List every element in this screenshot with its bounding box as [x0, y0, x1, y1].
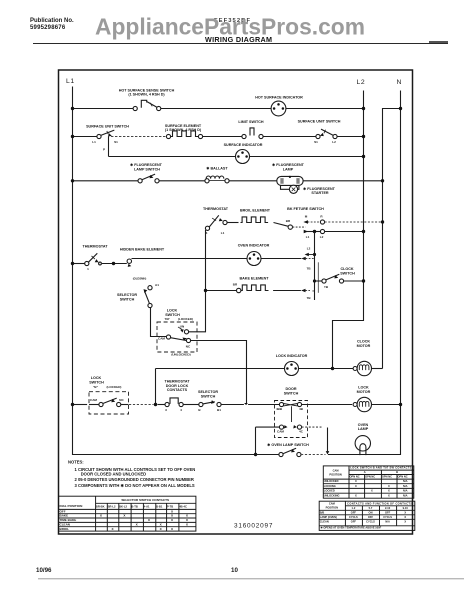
junction control vertical row [313, 230, 316, 233]
svg-text:B1: B1 [217, 408, 221, 412]
svg-text:OVEN INDICATOR: OVEN INDICATOR [238, 243, 270, 247]
svg-text:LAMP SWITCH: LAMP SWITCH [134, 167, 160, 171]
wire L1 bus [73, 87, 255, 455]
wire oven control vertical [314, 232, 316, 301]
junction row8-drop row9 [154, 403, 157, 406]
bake feature switch upper contact [303, 220, 382, 224]
svg-text:X: X [136, 522, 139, 526]
svg-text:DIAL POSITION: DIAL POSITION [60, 504, 84, 508]
svg-text:B-TB: B-TB [131, 504, 137, 508]
wire row10 dashed segment [301, 454, 326, 456]
surface unit switch left [97, 130, 114, 138]
svg-text:LOCKED: LOCKED [324, 489, 335, 493]
svg-text:CAM: CAM [329, 501, 335, 505]
junction bake row start [204, 289, 207, 292]
svg-text:CONTACTS: CONTACTS [167, 388, 188, 392]
svg-text:5995298676: 5995298676 [30, 25, 66, 31]
svg-text:CLEAN: CLEAN [60, 522, 71, 526]
svg-text:X: X [404, 510, 406, 514]
svg-text:L2: L2 [307, 246, 311, 250]
bake element resistor [237, 285, 301, 293]
svg-text:BK FETURE SWITCH: BK FETURE SWITCH [287, 207, 324, 211]
junction L2 row6 [362, 230, 365, 233]
svg-text:L1: L1 [221, 231, 225, 235]
header rule [33, 43, 448, 45]
svg-text:N/A: N/A [403, 494, 408, 498]
svg-text:4C: 4C [299, 430, 304, 434]
svg-text:LAMP: LAMP [358, 427, 369, 431]
svg-text:UNLOCKING: UNLOCKING [324, 494, 340, 498]
svg-text:A: A [364, 470, 366, 474]
svg-text:B: B [396, 470, 398, 474]
svg-text:UNLOCKED: UNLOCKED [324, 479, 339, 483]
svg-text:X: X [355, 494, 357, 498]
svg-text:N: N [397, 79, 402, 86]
svg-text:TB: TB [306, 296, 311, 300]
table1 X marks [100, 509, 189, 530]
junction L2 clock row [362, 279, 365, 282]
lock switch B contact [89, 398, 129, 407]
wire row7 bake element [206, 290, 237, 292]
selector switch B-B1 [199, 400, 244, 407]
svg-text:NC: NC [186, 344, 191, 348]
lock contact UN [178, 327, 189, 334]
wire P tap from surface switch [108, 137, 110, 157]
junction vertical row9 [244, 403, 248, 405]
wire row8 lock indicator [156, 368, 285, 370]
svg-text:DOOR CLOSED AND UNLOCKED: DOOR CLOSED AND UNLOCKED [81, 472, 146, 477]
svg-text:OPN NC: OPN NC [382, 475, 392, 479]
svg-text:S1: S1 [114, 140, 118, 144]
svg-text:Publication No.: Publication No. [30, 18, 74, 24]
svg-text:N/A: N/A [403, 489, 408, 493]
svg-text:S1: S1 [314, 140, 318, 144]
selector wiper A1-P [144, 286, 153, 308]
svg-text:LOCKING: LOCKING [324, 484, 336, 488]
svg-text:CYCLS: CYCLS [383, 515, 392, 519]
svg-text:3 COMPONENTS WITH ✱ DO NOT: 3 COMPONENTS WITH ✱ DO NOT APPEAR ON ALL… [75, 483, 195, 488]
svg-text:(LOCKED): (LOCKED) [107, 385, 122, 389]
svg-text:SWITCH: SWITCH [165, 313, 180, 317]
junction control vertical tap [313, 253, 316, 256]
svg-text:LOCK INDICATOR: LOCK INDICATOR [276, 354, 308, 358]
svg-text:POSITION: POSITION [326, 506, 339, 510]
wire L2 bus [333, 91, 364, 369]
svg-text:4-A1: 4-A1 [144, 504, 150, 508]
svg-text:CAM: CAM [277, 430, 284, 434]
svg-text:NOTES:: NOTES: [68, 460, 84, 465]
svg-text:BR-L2: BR-L2 [108, 504, 116, 508]
junction N row1 [399, 107, 402, 110]
svg-text:B: B [198, 408, 201, 412]
junction row8 L2 elbow [331, 367, 334, 370]
svg-text:L2: L2 [320, 235, 324, 239]
svg-text:X: X [388, 494, 390, 498]
svg-text:3: 3 [165, 408, 167, 412]
svg-text:LAMP: LAMP [283, 167, 294, 171]
fluorescent lamp [277, 176, 303, 186]
surface unit switch right [316, 129, 337, 138]
svg-text:X: X [355, 484, 357, 488]
oven lamp [355, 436, 370, 456]
hot surface sense switch [133, 100, 161, 110]
svg-text:NC: NC [119, 398, 124, 402]
svg-text:(UNLOCKED): (UNLOCKED) [171, 353, 190, 357]
cam function table [319, 501, 415, 530]
svg-text:CYCLS: CYCLS [349, 515, 358, 519]
wire 4C drop to row10 [327, 428, 329, 452]
svg-text:P-TB: P-TB [167, 504, 173, 508]
svg-text:X: X [388, 484, 390, 488]
svg-text:X: X [186, 518, 189, 522]
fluorescent lamp switch [138, 174, 159, 183]
junction L1 row2 [71, 135, 74, 138]
svg-text:BR-BK: BR-BK [96, 504, 105, 508]
bake feature switch lower contact [293, 227, 364, 233]
svg-text:"B": "B" [93, 385, 99, 389]
stub tap L2 [305, 253, 309, 256]
svg-text:10/96: 10/96 [36, 567, 52, 574]
svg-text:P: P [103, 148, 105, 152]
svg-text:BK-L2: BK-L2 [119, 504, 127, 508]
arrow bake to control vertical [301, 289, 305, 293]
door switch dashed box [275, 401, 308, 438]
junction L1 row1 [71, 107, 74, 110]
svg-text:N/A: N/A [403, 484, 408, 488]
hidden bake connector circle [127, 259, 131, 267]
door switch lower contact [256, 425, 322, 429]
svg-text:SURFACE UNIT SWITCH: SURFACE UNIT SWITCH [298, 120, 341, 124]
wire secondary control vertical [317, 262, 319, 293]
wire row2 surface element circuit [73, 136, 97, 138]
arrow into control vertical (P) [301, 257, 305, 261]
lock indicator lamp [285, 362, 299, 376]
svg-text:OPN NC: OPN NC [365, 475, 375, 479]
wire row3 surface indicator [109, 156, 237, 158]
clock motor [353, 361, 382, 375]
wire row8 left drop [155, 369, 157, 405]
wire row6 broil element [227, 222, 238, 224]
svg-text:X: X [160, 527, 163, 531]
junction N row9 [399, 403, 402, 406]
svg-text:4BB: 4BB [276, 407, 283, 411]
oven lamp switch [279, 448, 301, 456]
svg-text:X: X [355, 479, 357, 483]
svg-text:(LOCKED): (LOCKED) [178, 317, 193, 321]
wire N bus [369, 91, 401, 455]
wire thermostat terminal 3 drop [189, 230, 206, 332]
svg-text:X: X [371, 489, 373, 493]
svg-text:2-10: 2-10 [385, 506, 391, 510]
svg-text:OPN NC: OPN NC [350, 475, 360, 479]
junction row5 mid [112, 262, 115, 265]
svg-text:UN: UN [180, 324, 184, 328]
junction L1 row9 [71, 403, 74, 406]
fluorescent starter [281, 185, 299, 193]
svg-text:CAM: CAM [90, 398, 97, 402]
svg-text:M: M [305, 214, 308, 218]
thermostat door lock contacts [165, 398, 199, 407]
surface element resistor [166, 131, 202, 139]
wire row5b to oven indicator [132, 258, 248, 260]
svg-text:CAM: CAM [158, 336, 165, 340]
broil element terminal BR [288, 225, 292, 229]
svg-text:(1 SHOWN, 4 RSH D): (1 SHOWN, 4 RSH D) [165, 128, 202, 132]
svg-text:X: X [388, 489, 390, 493]
svg-text:MOTOR: MOTOR [357, 390, 371, 394]
clock switch [315, 274, 364, 283]
footer hairline [38, 578, 464, 580]
svg-text:T97: T97 [164, 317, 170, 321]
svg-text:4: 4 [180, 408, 182, 412]
ballast inductor [205, 176, 229, 183]
junction L2 row3 [362, 155, 365, 158]
wire P drop to lock switch [151, 308, 167, 337]
svg-text:X: X [171, 527, 174, 531]
wire row10 to lamp [328, 454, 401, 456]
svg-text:3: 3 [206, 231, 208, 235]
svg-text:10: 10 [231, 567, 238, 574]
svg-text:1-2: 1-2 [352, 506, 356, 510]
svg-text:SWITCH: SWITCH [340, 271, 355, 275]
svg-text:LAMP (OVEN): LAMP (OVEN) [320, 515, 337, 519]
svg-text:L1: L1 [92, 140, 96, 144]
lock switch contacts table [323, 466, 414, 498]
svg-text:OPN NC: OPN NC [398, 475, 408, 479]
svg-text:R: R [320, 214, 323, 218]
svg-text:SWITCH: SWITCH [284, 391, 299, 395]
svg-text:X: X [148, 518, 151, 522]
oven indicator lamp [247, 252, 261, 266]
door switch inner link [291, 406, 293, 422]
door switch upper contact [279, 402, 352, 406]
junction L1 row4 [71, 179, 74, 182]
svg-text:CAM: CAM [333, 469, 339, 473]
svg-text:TB: TB [324, 285, 329, 289]
svg-text:BR: BR [286, 219, 291, 223]
svg-text:X: X [100, 514, 103, 518]
wire row9 lock motor row [73, 404, 88, 406]
wire row5 oven thermostat row [73, 263, 85, 265]
diagram outer border [59, 70, 413, 534]
svg-text:(1 SHOWN, 4 RSH D): (1 SHOWN, 4 RSH D) [128, 92, 165, 96]
thermostat switch left [85, 253, 102, 265]
svg-text:X: X [404, 515, 406, 519]
svg-text:✱ BALLAST: ✱ BALLAST [206, 166, 228, 170]
svg-text:SWITCH: SWITCH [89, 380, 104, 384]
wire row9 dashed to junction [129, 404, 154, 406]
lock motor [353, 397, 400, 411]
svg-text:X: X [123, 514, 126, 518]
wire row1 hot surface sense circuit [73, 108, 134, 110]
svg-text:X: X [171, 518, 174, 522]
lock switch B dashed box [89, 392, 129, 414]
surface indicator lamp [236, 150, 250, 164]
svg-text:WIRING DIAGRAM: WIRING DIAGRAM [205, 35, 272, 44]
svg-text:OFF: OFF [368, 515, 374, 519]
svg-text:SWITCH: SWITCH [201, 394, 216, 398]
junction L1 row5 [71, 262, 74, 265]
svg-text:SELECTOR SWITCH CONTACTS: SELECTOR SWITCH CONTACTS [121, 498, 169, 502]
svg-text:ON: ON [369, 510, 373, 514]
junction branch row4 [381, 179, 384, 182]
wire lower contact drop to row10 [255, 427, 257, 454]
svg-text:LOCK SWITCH B AND T97 SW CONTA: LOCK SWITCH B AND T97 SW CONTACTS [350, 466, 411, 470]
svg-text:OFF: OFF [351, 519, 357, 523]
svg-text:N/A: N/A [403, 479, 408, 483]
svg-text:X: X [404, 519, 406, 523]
svg-text:CLEAN: CLEAN [320, 519, 329, 523]
svg-text:HOT SURFACE INDICATOR: HOT SURFACE INDICATOR [255, 95, 303, 99]
oven thermostat switch [205, 215, 227, 230]
svg-text:BROIL ELEMENT: BROIL ELEMENT [240, 209, 271, 213]
svg-text:2 05-0 DENOTES UNGROUNDED: 2 05-0 DENOTES UNGROUNDED CONNECTOR PIN … [75, 477, 194, 482]
lock contact CAM blade [166, 335, 190, 343]
hot surface indicator lamp [271, 101, 286, 116]
svg-text:A1: A1 [155, 283, 159, 287]
svg-text:SURFACE INDICATOR: SURFACE INDICATOR [224, 143, 263, 147]
svg-text:THERMOSTAT: THERMOSTAT [82, 245, 108, 249]
svg-text:B/B: B/B [320, 510, 325, 514]
svg-text:4B: 4B [299, 407, 304, 411]
svg-text:N/A: N/A [385, 519, 390, 523]
wire row4 fluorescent circuit [73, 180, 139, 182]
junction clock tap [313, 279, 316, 282]
svg-text:4B-4C: 4B-4C [179, 504, 187, 508]
wire lock box exit to vertical [191, 341, 247, 405]
lock switch T97 dashed box [157, 322, 197, 352]
svg-text:✱ OVEN LAMP SWITCH: ✱ OVEN LAMP SWITCH [267, 443, 309, 447]
svg-text:X: X [111, 527, 114, 531]
svg-text:L2: L2 [357, 79, 366, 86]
svg-text:BR: BR [233, 282, 238, 286]
svg-text:HIDDEN BAKE ELEMENT: HIDDEN BAKE ELEMENT [120, 248, 165, 252]
wire row10 oven lamp row [255, 454, 279, 456]
svg-text:L1: L1 [66, 78, 75, 85]
limit switch [242, 128, 263, 139]
svg-text:316002097: 316002097 [234, 523, 273, 530]
svg-text:X: X [186, 522, 189, 526]
junction L2 row2 [362, 135, 365, 138]
junction branch row6 [381, 220, 384, 223]
svg-text:CONTACTS AND FUNCTION OF CONTA: CONTACTS AND FUNCTION OF CONTACTS [347, 501, 412, 505]
svg-text:L2: L2 [332, 140, 336, 144]
svg-text:OFF: OFF [385, 510, 391, 514]
selector switch contacts table [59, 496, 196, 531]
svg-text:(OLDSMH): (OLDSMH) [133, 276, 147, 280]
svg-text:TIME BAKE: TIME BAKE [60, 518, 77, 522]
svg-text:THERMOSTAT: THERMOSTAT [203, 207, 229, 211]
svg-text:LIMIT SWITCH: LIMIT SWITCH [238, 120, 264, 124]
svg-text:X: X [160, 522, 163, 526]
wire row9 into door switch box [248, 404, 279, 406]
svg-text:✱ OPENS AT OVEN TEMPERATUR: ✱ OPENS AT OVEN TEMPERATURE ABOVE 550F [321, 526, 382, 530]
wire N to inner branch stub [383, 109, 401, 369]
svg-text:OFF: OFF [351, 510, 357, 514]
svg-text:BAKE ELEMENT: BAKE ELEMENT [239, 277, 269, 281]
svg-text:CYCLS: CYCLS [366, 519, 375, 523]
svg-text:STARTER: STARTER [311, 191, 328, 195]
junction row10 left drop [254, 453, 257, 456]
svg-text:SWITCH: SWITCH [120, 297, 135, 301]
svg-text:TB: TB [306, 267, 311, 271]
svg-text:B-B1: B-B1 [156, 504, 163, 508]
svg-text:1: 1 [87, 267, 89, 271]
svg-text:MOTOR: MOTOR [357, 344, 371, 348]
header rule right dash [429, 41, 448, 43]
svg-text:POSITION: POSITION [329, 473, 342, 477]
junction L2 row1 [362, 107, 365, 110]
svg-text:L1: L1 [306, 235, 310, 239]
svg-text:9-10: 9-10 [403, 506, 409, 510]
svg-text:5-7: 5-7 [369, 506, 373, 510]
svg-text:SURFACE UNIT SWITCH: SURFACE UNIT SWITCH [86, 125, 129, 129]
svg-text:BROIL: BROIL [60, 527, 70, 531]
